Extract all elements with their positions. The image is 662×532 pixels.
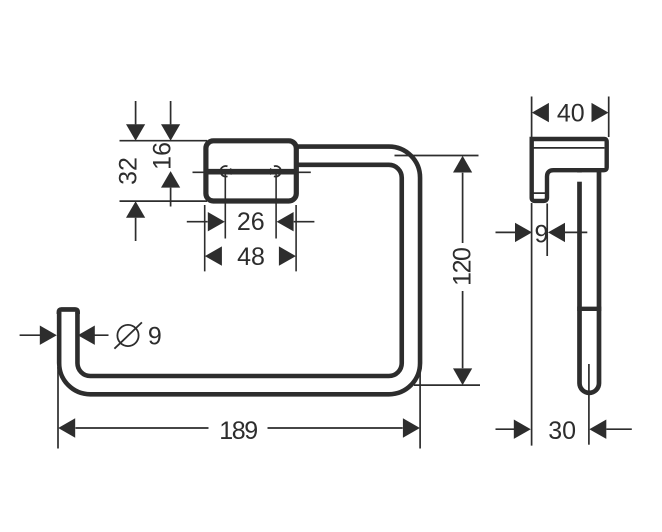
svg-text:16: 16 [148, 142, 176, 170]
svg-text:9: 9 [535, 221, 549, 249]
svg-text:40: 40 [557, 100, 585, 128]
svg-text:189: 189 [219, 417, 257, 445]
svg-text:32: 32 [114, 157, 142, 185]
svg-text:26: 26 [237, 208, 265, 236]
svg-text:48: 48 [237, 243, 265, 271]
svg-text:9: 9 [148, 323, 162, 351]
svg-text:30: 30 [548, 417, 576, 445]
svg-text:120: 120 [449, 248, 477, 286]
